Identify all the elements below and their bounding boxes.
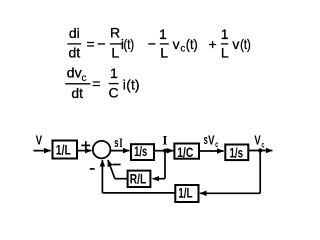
- block 1/s second: [225, 144, 248, 160]
- svg-text:(t): (t): [126, 76, 139, 92]
- svg-text:1/L: 1/L: [56, 142, 71, 158]
- svg-text:1: 1: [221, 26, 229, 42]
- node I junction dot: [163, 149, 167, 153]
- svg-text:−: −: [97, 36, 105, 52]
- wire 1/L bottom to left: [102, 192, 175, 194]
- svg-text:=: =: [87, 36, 95, 52]
- wire 1/s to Vc node and output arrow: [249, 150, 273, 152]
- svg-text:dt: dt: [68, 44, 80, 60]
- node sI label: [114, 135, 122, 150]
- wire R/L output left: [115, 178, 128, 180]
- node sVc label: [204, 132, 219, 149]
- wire bottom right to 1/L bottom: [200, 192, 260, 194]
- svg-text:1: 1: [110, 65, 118, 81]
- node Vc junction dot: [258, 148, 262, 152]
- wire input arrow to 1/L: [34, 150, 51, 152]
- svg-text:(t): (t): [124, 36, 135, 52]
- block 1/s: [131, 143, 154, 160]
- wire up into summer bottom: [101, 160, 103, 193]
- svg-text:(t): (t): [240, 36, 251, 52]
- wire 1/L to summer: [78, 150, 92, 152]
- svg-text:dt: dt: [71, 85, 83, 101]
- block R/L: [128, 171, 151, 188]
- plus sign at summer input: [81, 141, 90, 148]
- wire Vc down: [259, 151, 261, 194]
- svg-text:c: c: [261, 139, 264, 149]
- minus sign at summer bottom input: [90, 168, 95, 170]
- wire node I to 1/C: [165, 150, 173, 152]
- svg-text:(t): (t): [186, 36, 198, 52]
- svg-text:C: C: [109, 84, 119, 100]
- svg-text:v: v: [232, 36, 239, 52]
- svg-text:1/s: 1/s: [134, 143, 147, 159]
- block 1/L bottom: [175, 185, 198, 202]
- wire summer to 1/s: [111, 150, 129, 152]
- wire into R/L from right: [153, 178, 165, 180]
- serif foot eq1 second 1/L numerator: [223, 38, 228, 39]
- wire 1/s to node I: [155, 150, 166, 152]
- svg-text:1/C: 1/C: [177, 144, 193, 160]
- block 1/C: [174, 144, 199, 160]
- serif foot eq2 1/C numerator: [113, 77, 118, 78]
- svg-text:R/L: R/L: [130, 171, 147, 187]
- equation 2: dvc/dt = 1/C i(t): [65, 65, 139, 102]
- svg-text:I: I: [119, 136, 122, 150]
- wire node I down to R/L: [164, 151, 166, 179]
- wire diagonal into summer: [108, 160, 115, 179]
- svg-text:L: L: [221, 45, 229, 61]
- svg-text:I: I: [162, 133, 167, 148]
- svg-text:s: s: [114, 135, 118, 150]
- svg-text:c: c: [82, 73, 87, 84]
- summing junction: [93, 141, 111, 159]
- svg-text:c: c: [215, 139, 218, 149]
- equation 1: di/dt = -R/L i(t) - 1/L vc(t) + 1/L v(t): [67, 25, 250, 61]
- svg-text:L: L: [111, 45, 119, 61]
- svg-text:V: V: [208, 132, 215, 147]
- svg-text:V: V: [254, 132, 261, 147]
- serif foot eq1 1/L numerator: [161, 38, 166, 39]
- block 1/L top: [53, 141, 78, 159]
- svg-text:v: v: [173, 36, 180, 52]
- svg-text:1/L: 1/L: [178, 185, 193, 201]
- node Vc label: [254, 132, 264, 149]
- svg-text:+: +: [209, 36, 217, 52]
- svg-text:L: L: [160, 45, 168, 61]
- svg-text:−: −: [148, 36, 156, 52]
- minus sign at summer diagonal input: [112, 164, 120, 166]
- svg-text:1/s: 1/s: [230, 144, 244, 160]
- wire 1/C to 1/s(2): [200, 150, 224, 152]
- svg-text:R: R: [110, 25, 120, 41]
- svg-text:=: =: [92, 76, 100, 92]
- svg-text:di: di: [69, 25, 80, 41]
- svg-text:1: 1: [159, 26, 167, 42]
- svg-text:V: V: [36, 133, 43, 148]
- svg-text:c: c: [180, 44, 185, 55]
- svg-text:dv: dv: [67, 65, 82, 81]
